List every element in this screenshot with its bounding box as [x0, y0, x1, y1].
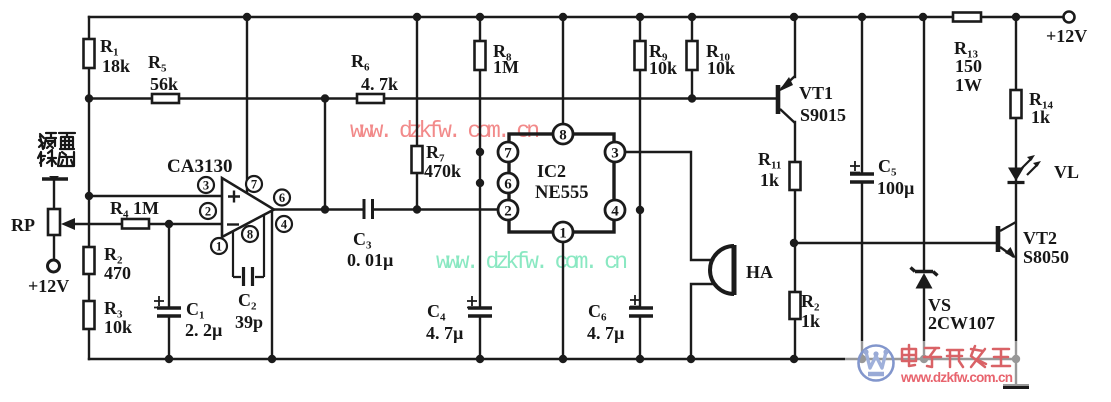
op-amp pin 1 — [211, 238, 227, 254]
resistor R10 — [687, 41, 698, 70]
potentiometer RP wiper arrow — [61, 218, 75, 230]
svg-text:HA: HA — [746, 262, 773, 282]
svg-text:1: 1 — [559, 226, 567, 242]
555 pin 6 — [498, 173, 518, 193]
svg-text:39p: 39p — [235, 312, 263, 332]
svg-text:8: 8 — [559, 128, 567, 144]
transistor VT1 collector — [780, 109, 795, 123]
svg-text:10k: 10k — [649, 58, 677, 78]
svg-text:1M: 1M — [493, 57, 519, 77]
resistor R1 — [84, 39, 95, 68]
resistor R8 — [475, 41, 486, 70]
wire R9/pin4/C6 branch x640 — [639, 17, 641, 307]
wire R10 drop x692 — [691, 17, 693, 99]
capacitor C2 legs — [233, 215, 264, 277]
svg-text:VL: VL — [1054, 162, 1079, 182]
capacitor C5 — [850, 174, 874, 182]
wire C3 to 555 pin2 — [373, 208, 499, 210]
IC2 NE555 box — [509, 134, 614, 232]
svg-text:S9015: S9015 — [800, 105, 846, 125]
svg-text:7: 7 — [251, 178, 257, 192]
svg-text:S8050: S8050 — [1023, 247, 1069, 267]
svg-text:6: 6 — [279, 191, 285, 205]
svg-text:10k: 10k — [707, 58, 735, 78]
svg-text:3: 3 — [611, 146, 619, 162]
liquid probe bar — [42, 177, 68, 180]
transistor VT2 bar — [996, 226, 1001, 252]
transistor VT2 emitter — [1000, 247, 1014, 257]
svg-text:8: 8 — [247, 228, 253, 242]
transistor VT1 bar — [776, 85, 781, 114]
capacitor C4 — [468, 308, 492, 316]
resistor R4 — [122, 219, 149, 229]
svg-text:18k: 18k — [102, 56, 130, 76]
capacitor C6 — [629, 308, 653, 316]
svg-text:NE555: NE555 — [535, 183, 588, 203]
svg-text:+12V: +12V — [1046, 26, 1087, 46]
svg-text:R4 1M: R4 1M — [110, 198, 159, 221]
svg-text:CA3130: CA3130 — [167, 156, 232, 177]
white fade under logo — [845, 341, 1041, 386]
transistor VT2 collector — [1000, 222, 1016, 231]
resistor R2 — [84, 247, 95, 274]
svg-text:4: 4 — [281, 218, 288, 232]
svg-text:+12V: +12V — [28, 276, 69, 296]
svg-text:www. dzkfw. com. cn: www. dzkfw. com. cn — [436, 249, 628, 275]
wire VT1 emitter supply x795 — [794, 17, 796, 77]
logo blue circle W — [859, 346, 894, 381]
wire C6 to ground x640 — [639, 317, 641, 359]
op-amp pin 8 — [242, 226, 258, 242]
svg-text:0. 01µ: 0. 01µ — [347, 250, 394, 270]
svg-text:www. dzkfw. com. cn: www. dzkfw. com. cn — [350, 118, 540, 144]
svg-text:2: 2 — [504, 204, 512, 220]
svg-text:150: 150 — [955, 56, 982, 76]
op-amp pin 6 — [274, 190, 290, 206]
wire VS branch x924 lower — [923, 288, 925, 359]
ground symbol — [1003, 384, 1029, 389]
LED VL — [1008, 168, 1024, 182]
wire C1 branch x169 upper — [168, 224, 170, 307]
svg-text:1k: 1k — [801, 311, 820, 331]
wire bottom ground rail — [89, 358, 1016, 360]
svg-text:470k: 470k — [424, 161, 461, 181]
wire C5 branch x862 upper — [861, 17, 863, 172]
wire R14 LED VT2 branch x1016 — [1015, 17, 1017, 359]
wire feedback drop x325 — [324, 99, 326, 210]
resistor R14 — [1011, 90, 1022, 118]
resistor R7 — [412, 146, 423, 173]
resistor R13 — [953, 13, 981, 22]
resistor R3 — [84, 301, 95, 329]
555 pin 4 — [605, 200, 625, 220]
svg-text:7: 7 — [504, 146, 512, 162]
wire op-amp output to C3 — [274, 208, 363, 210]
terminal +12V right — [1064, 12, 1075, 23]
op-amp pin 3 — [198, 177, 214, 193]
555 pin 3 — [605, 142, 625, 162]
wire R7 branch x417 — [416, 17, 418, 210]
555 pin 8 — [553, 124, 573, 144]
wire top +12V rail — [89, 16, 1063, 18]
svg-text:10k: 10k — [104, 317, 132, 337]
svg-text:4: 4 — [611, 204, 619, 220]
svg-text:56k: 56k — [150, 74, 178, 94]
wire C5 branch x862 lower — [861, 184, 863, 359]
svg-text:1k: 1k — [760, 170, 779, 190]
resistor R12 — [790, 292, 801, 319]
svg-text:6: 6 — [504, 177, 512, 193]
op-amp pin 7 — [246, 176, 262, 192]
wire ground stem — [1015, 359, 1017, 384]
svg-text:2: 2 — [205, 205, 211, 219]
wire VT2 base row y243 — [794, 242, 996, 244]
wire C4 to ground x480 — [479, 317, 481, 359]
svg-text:IC2: IC2 — [537, 161, 566, 181]
wire op-amp pin7 supply drop x247 — [246, 17, 248, 192]
wire C1 branch x169 lower — [168, 317, 170, 359]
svg-text:4. 7µ: 4. 7µ — [587, 323, 625, 343]
555 pin 7 — [498, 142, 518, 162]
svg-text:VT1: VT1 — [799, 83, 833, 103]
wire VT1 collector R11 R12 x795 — [794, 122, 796, 359]
potentiometer RP body — [48, 209, 60, 235]
svg-text:3: 3 — [203, 179, 209, 193]
resistor R5 — [152, 94, 179, 103]
logo red brush characters — [902, 345, 1010, 367]
svg-text:VT2: VT2 — [1023, 228, 1057, 248]
svg-text:1k: 1k — [1031, 107, 1050, 127]
capacitor C1 — [157, 308, 181, 316]
terminal +12V left — [48, 260, 60, 272]
wire RP top stem — [53, 180, 55, 209]
wire RP bottom stem — [53, 235, 55, 260]
wire 555 pin1 ground x563 — [562, 242, 564, 359]
555 pin 1 — [553, 222, 573, 242]
svg-text:2. 2µ: 2. 2µ — [185, 320, 223, 340]
capacitor C2 plates — [244, 267, 253, 286]
zener diode VS — [916, 273, 933, 289]
wire 555 pin3 to HA — [625, 152, 713, 260]
svg-text:2CW107: 2CW107 — [928, 313, 995, 333]
speaker HA — [732, 245, 737, 295]
svg-text:www.dzkfw.com.cn: www.dzkfw.com.cn — [900, 370, 1013, 385]
svg-text:1W: 1W — [955, 75, 982, 95]
wire left rail — [88, 17, 90, 359]
resistor R6 — [357, 94, 384, 103]
svg-text:4. 7µ: 4. 7µ — [426, 323, 464, 343]
svg-text:4. 7k: 4. 7k — [361, 74, 398, 94]
capacitor C3 plates — [364, 199, 373, 219]
transistor VT1 emitter — [781, 76, 795, 89]
resistor R11 — [790, 162, 801, 190]
op-amp U1 CA3130 triangle — [222, 178, 274, 237]
svg-text:100µ: 100µ — [877, 178, 915, 198]
resistor R9 — [635, 41, 646, 70]
label liquid-level text — [38, 133, 75, 166]
wire op-amp pin4 ground x272 — [271, 211, 273, 359]
op-amp pin 2 — [200, 203, 216, 219]
wire 555 pin8 supply x563 — [562, 17, 564, 124]
svg-text:VS: VS — [928, 295, 951, 315]
op-amp pin 4 — [276, 216, 292, 232]
555 pin 2 — [498, 200, 518, 220]
svg-text:470: 470 — [104, 263, 131, 283]
wire VS branch x924 upper — [923, 17, 925, 271]
svg-text:1: 1 — [216, 240, 222, 254]
wire divider row y98 — [89, 97, 776, 99]
wire non-inverting input y196 — [89, 195, 222, 197]
svg-text:RP: RP — [11, 215, 35, 235]
wire RP wiper through R4 to inverting input y224 — [74, 223, 222, 225]
wire HA bottom to ground — [691, 284, 713, 359]
wire R8/C4 branch x480 — [479, 17, 481, 307]
